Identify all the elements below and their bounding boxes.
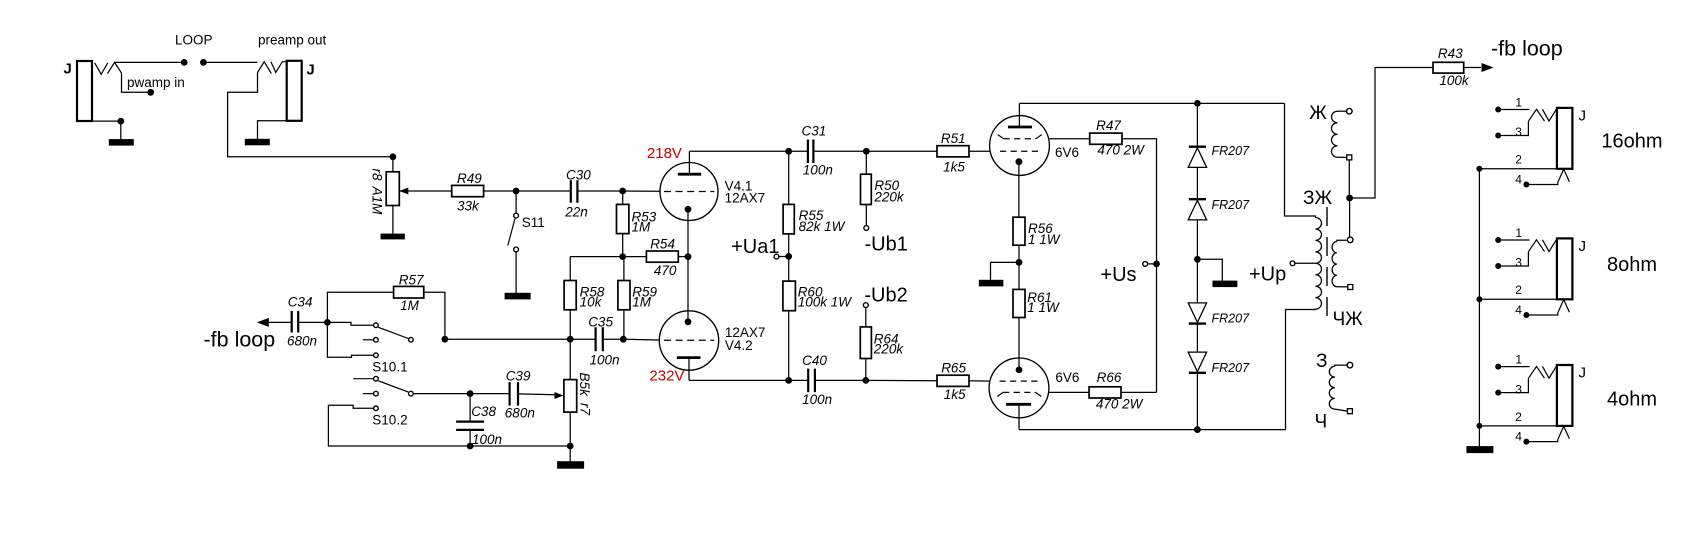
diode FR207 D1: [1188, 148, 1206, 168]
wire V4.1 anode to C31: [689, 150, 808, 152]
svg-text:6V6: 6V6: [1055, 145, 1079, 160]
svg-text:3: 3: [1515, 125, 1522, 139]
V4.1 cathode lead: [687, 209, 689, 256]
jack 8ohm tip contact: [1529, 240, 1545, 252]
wire R59 top: [623, 257, 625, 281]
svg-text:16ohm: 16ohm: [1601, 131, 1662, 153]
capacitor C31: [807, 140, 809, 164]
wire J2 sleeve: [258, 121, 287, 139]
secondary stub bottom: [1337, 286, 1348, 288]
jack 16ohm pin4 node: [1523, 182, 1529, 188]
svg-text:1k5: 1k5: [944, 387, 966, 402]
wire pwamp in stub: [122, 73, 151, 92]
jack J preamp-out body: [287, 61, 302, 121]
svg-text:2: 2: [1515, 153, 1522, 167]
wire R54 to cathode node: [678, 256, 688, 258]
resistor R60: [783, 281, 796, 311]
switch S10.1 throw3 contact: [374, 353, 379, 358]
ground of S11: [505, 293, 531, 300]
triode V4.2 envelope: [659, 311, 718, 370]
jack J2 tip break contact: [271, 62, 287, 73]
svg-text:82k 1W: 82k 1W: [799, 219, 846, 234]
svg-text:FR207: FR207: [1212, 144, 1251, 158]
wire R66 to rail: [1121, 391, 1157, 393]
resistor R56: [1013, 217, 1025, 245]
node R64 bottom: [862, 377, 869, 384]
wire pot top: [392, 157, 394, 172]
jack J1 tip contact: [107, 62, 121, 73]
wire LOOP return to J2: [203, 61, 257, 63]
wire C34 to node: [298, 321, 327, 323]
node +Ua1: [785, 253, 792, 260]
feedback winding terminal top: [1347, 108, 1353, 114]
winding З stub bottom: [1335, 409, 1348, 411]
svg-text:C31: C31: [802, 124, 827, 139]
switch S10.1 throw2 contact: [374, 338, 379, 343]
switch S10.1 throw1 contact: [374, 323, 379, 328]
capacitor C40: [807, 369, 809, 393]
node diode chain bottom: [1194, 426, 1201, 433]
resistor R57: [394, 286, 424, 298]
svg-text:r8: r8: [369, 168, 384, 180]
ground of speaker bus: [1466, 446, 1493, 453]
pentode 6V6 upper envelope: [990, 116, 1050, 176]
pot B5k wiper arrow: [555, 392, 564, 399]
6V6u anode plate: [1008, 126, 1032, 129]
capacitor C35: [594, 327, 596, 351]
switch S10.1 throw2 stub: [363, 339, 374, 341]
wire R53 bottom: [622, 234, 624, 257]
V4.2 anode plate: [677, 356, 701, 359]
terminal -Ub1: [864, 226, 869, 231]
jack 16ohm pin2 wire: [1479, 168, 1557, 170]
wire R58 bottom: [569, 310, 571, 339]
triode V4.1 envelope: [660, 163, 718, 221]
6V6l cathode node: [1016, 367, 1023, 374]
svg-text:100n: 100n: [472, 432, 502, 447]
jack J 16ohm pin1 node: [1495, 107, 1501, 113]
wire S10.2 throw3 to bottom rail: [328, 405, 470, 446]
node R50 top: [863, 148, 870, 155]
svg-text:1 1W: 1 1W: [1028, 232, 1061, 247]
switch S10.1 lever: [378, 327, 408, 338]
jack 16ohm pin4 wire: [1526, 182, 1557, 184]
wire node to S10.1 throw3: [327, 322, 373, 357]
jack 16ohm pin2 node: [1476, 166, 1482, 172]
node pwamp in: [147, 89, 154, 96]
wire feedback node to R43: [1350, 68, 1433, 199]
terminal +Us: [1143, 262, 1148, 267]
wire R51 to 6V6 grid: [969, 150, 990, 152]
wire C38 node to C39: [470, 393, 510, 395]
jack 4ohm pin4 node: [1523, 439, 1529, 445]
wire to cathode ground: [991, 262, 1020, 280]
jack 8ohm pin1 wire: [1498, 239, 1529, 241]
resistor R49: [452, 185, 484, 196]
jack 4ohm pin1 wire: [1498, 366, 1529, 368]
svg-text:R57: R57: [399, 272, 424, 287]
jack 4ohm pin2 node: [1476, 423, 1482, 429]
svg-text:C40: C40: [802, 353, 827, 368]
pot r8 wiper arrow: [399, 188, 408, 195]
transformer core: [1326, 207, 1328, 316]
feedback winding stub top: [1338, 110, 1347, 112]
wire node up to R57: [327, 292, 393, 322]
wire R50 top: [865, 151, 867, 174]
wire B5k bottom: [569, 412, 571, 446]
wire node to R58 branch: [570, 256, 646, 258]
wire C31 to R50 node: [813, 150, 866, 152]
resistor R66: [1089, 387, 1121, 398]
jack 16ohm pin3 node: [1495, 133, 1501, 139]
svg-text:preamp out: preamp out: [258, 33, 327, 48]
wire R60 bottom: [788, 311, 790, 381]
switch S10.1 pole contact: [409, 338, 414, 343]
6V6u anode lead: [1018, 103, 1020, 127]
node cathodes V4.1/V4.2: [685, 253, 692, 260]
svg-text:J: J: [306, 62, 314, 79]
transformer feedback winding: [1332, 111, 1338, 157]
ground of 6V6 cathodes: [979, 280, 1004, 287]
wire R49 to node: [484, 190, 516, 192]
svg-text:R43: R43: [1438, 46, 1463, 61]
wire anode bottom rail: [1019, 429, 1286, 431]
svg-text:4: 4: [1515, 303, 1522, 317]
wire to +Up ground: [1197, 259, 1222, 281]
wire C30 to grid node: [577, 190, 622, 192]
svg-text:C30: C30: [566, 167, 591, 182]
node diode chain top: [1194, 100, 1201, 107]
svg-text:C39: C39: [506, 368, 531, 383]
node B5k bottom: [567, 443, 574, 450]
svg-text:J: J: [1579, 107, 1587, 124]
diode FR207 D2: [1188, 200, 1206, 220]
node C38 bottom: [467, 443, 474, 450]
svg-text:1: 1: [1515, 353, 1522, 367]
wire R59 bottom: [623, 310, 625, 339]
V4.1 cathode node: [685, 206, 692, 213]
wire branch down to R58: [569, 257, 571, 281]
resistor R55: [783, 204, 794, 234]
wire node to S10.1 throw1: [327, 322, 373, 325]
6V6l screen end ticks: [997, 392, 1003, 396]
jack 4ohm pin4 wire: [1526, 440, 1557, 442]
svg-text:C38: C38: [471, 404, 496, 419]
svg-text:C35: C35: [588, 314, 613, 329]
switch S10.2 lever: [378, 381, 408, 392]
transformer secondary winding: [1332, 242, 1337, 287]
jack 8ohm pin3 wire: [1498, 252, 1528, 266]
switch S11 top contact: [514, 213, 519, 218]
wire -fb arrow to C34: [266, 321, 292, 323]
jack 8ohm pin3 node: [1495, 263, 1501, 269]
wire C40 to R64 node: [815, 379, 866, 381]
switch S10.2 throw1 contact: [374, 376, 379, 381]
jack J 4ohm pin1 node: [1495, 364, 1501, 370]
wire R55 bottom: [788, 234, 790, 281]
terminal +Ua1: [774, 254, 779, 259]
svg-text:J: J: [64, 61, 72, 78]
svg-text:R65: R65: [941, 361, 966, 376]
wire R50 bottom: [865, 205, 867, 226]
wire C38 top: [469, 394, 471, 421]
switch S11 bottom contact: [514, 247, 519, 252]
jack 16ohm sleeve contact: [1558, 169, 1570, 182]
switch S10.2 throw1 stub: [353, 378, 373, 380]
arrow -fb loop (left): [257, 318, 269, 327]
svg-text:22n: 22n: [564, 205, 588, 220]
diode FR207 D3: [1188, 303, 1206, 323]
wire node to C30: [516, 190, 571, 192]
node pot r8 top: [390, 153, 397, 160]
wire preamp-out to volume pot: [228, 73, 393, 157]
svg-text:100n: 100n: [590, 352, 620, 367]
V4.2 cathode lead: [687, 257, 689, 322]
wire wiper to R49: [399, 190, 451, 192]
wire C35 left: [570, 338, 595, 340]
svg-text:470 2W: 470 2W: [1096, 397, 1144, 412]
wire S10.2 pole to C38 node: [413, 393, 470, 395]
wire R47 to +Us rail: [1122, 139, 1157, 393]
wire R64 bottom: [865, 359, 867, 381]
svg-text:33k: 33k: [457, 198, 480, 213]
switch S10.2 throw2 stub: [363, 393, 374, 395]
svg-text:R47: R47: [1096, 118, 1121, 133]
winding З stub top: [1335, 365, 1347, 366]
svg-text:470: 470: [654, 263, 677, 278]
svg-text:220k: 220k: [873, 342, 905, 357]
resistor R53: [617, 204, 629, 233]
svg-text:4ohm: 4ohm: [1607, 389, 1657, 411]
svg-text:ЗЖ: ЗЖ: [1303, 188, 1332, 209]
ground of tone network: [557, 461, 584, 469]
transformer primary winding: [1316, 218, 1322, 310]
svg-text:100n: 100n: [802, 392, 832, 407]
svg-text:4: 4: [1515, 430, 1522, 444]
node R55 top: [785, 148, 792, 155]
node feedback select: [324, 319, 331, 326]
svg-text:1: 1: [1515, 226, 1522, 240]
jack J2 tip contact: [258, 62, 272, 74]
jack 8ohm pin2 wire: [1479, 298, 1557, 300]
svg-text:220k: 220k: [873, 189, 905, 204]
transformer winding З/Ч: [1329, 366, 1335, 409]
jack 4ohm tip break contact: [1543, 366, 1557, 378]
jack 4ohm tip contact: [1529, 366, 1545, 378]
jack 4ohm pin3 node: [1495, 390, 1501, 396]
jack 16ohm tip break contact: [1543, 109, 1557, 121]
resistor R58: [564, 281, 576, 310]
jack J pwamp-in body: [77, 61, 92, 121]
wire node to R65: [866, 379, 937, 381]
resistor R59: [618, 281, 630, 310]
svg-text:680n: 680n: [287, 334, 317, 349]
svg-text:-fb loop: -fb loop: [204, 328, 276, 352]
svg-text:232V: 232V: [649, 368, 684, 385]
svg-text:Ч: Ч: [1315, 412, 1328, 433]
wire S11 to ground: [515, 252, 517, 293]
6V6l screen grid (dashed): [1003, 391, 1036, 393]
svg-text:+Up: +Up: [1249, 264, 1286, 286]
svg-text:2: 2: [1515, 283, 1522, 297]
svg-text:680n: 680n: [505, 405, 535, 420]
6V6l control grid (dashed): [1000, 380, 1040, 382]
svg-text:S11: S11: [522, 215, 545, 230]
svg-text:2: 2: [1515, 410, 1522, 424]
V4.2 grid (dashed): [664, 339, 714, 341]
6V6l screen lead: [1049, 391, 1089, 393]
wire top rail to primary top: [1285, 103, 1316, 218]
jack 4ohm pin3 wire: [1498, 378, 1528, 392]
6V6u control grid (dashed): [1000, 150, 1040, 152]
wire node to R51: [866, 150, 937, 152]
wire C35 right: [603, 338, 624, 340]
wire speaker common bus: [1478, 169, 1480, 446]
wire V4.2 anode rail: [689, 379, 808, 381]
wire -Ub2 to R64: [865, 308, 867, 327]
node cathode bias: [1016, 259, 1023, 266]
jack J 4ohm body: [1557, 365, 1573, 426]
node R58/B5k/grid line: [567, 336, 574, 343]
wire anode top rail: [1019, 102, 1284, 104]
wire C39 to B5k wiper: [518, 393, 556, 396]
resistor R51: [937, 146, 969, 157]
capacitor C30: [570, 180, 572, 203]
wire grid V4.1: [623, 190, 661, 192]
6V6u screen grid (dashed): [1004, 138, 1037, 140]
potentiometer r8 A1M body: [386, 172, 399, 206]
wire pot bottom: [392, 206, 394, 234]
jack 16ohm pin3 wire: [1498, 121, 1528, 135]
ground of supply mid: [1212, 281, 1237, 288]
svg-text:100k: 100k: [1439, 73, 1470, 88]
switch S10.2 throw3 contact: [374, 406, 379, 411]
svg-text:R51: R51: [941, 131, 966, 146]
wire B5k top: [569, 339, 571, 379]
jack J 16ohm body: [1557, 108, 1573, 169]
svg-text:1M: 1M: [400, 298, 420, 313]
node C38 top: [467, 390, 474, 397]
svg-text:V4.2: V4.2: [725, 338, 753, 353]
svg-text:1k5: 1k5: [943, 159, 965, 174]
svg-text:3: 3: [1515, 256, 1522, 270]
resistor R50: [861, 174, 872, 204]
svg-text:J: J: [1579, 238, 1587, 255]
V4.1 grid (dashed): [664, 191, 714, 193]
wire grid V4.2: [623, 338, 659, 341]
resistor R47: [1090, 133, 1122, 144]
svg-text:+Ua1: +Ua1: [731, 236, 779, 258]
wire R57 right down to S10.1 out: [424, 292, 445, 339]
svg-text:ЧЖ: ЧЖ: [1333, 309, 1364, 330]
potentiometer B5k body: [564, 380, 577, 413]
resistor R43: [1433, 62, 1464, 73]
6V6u screen lead: [1049, 138, 1089, 140]
wire J1 sleeve: [92, 121, 121, 139]
svg-text:1: 1: [1515, 96, 1522, 110]
svg-text:R54: R54: [650, 237, 675, 252]
wire +Up to primary tap: [1295, 262, 1316, 264]
svg-text:+Us: +Us: [1100, 264, 1136, 286]
svg-text:LOOP: LOOP: [175, 33, 213, 48]
wire R61 bottom: [1018, 318, 1020, 370]
node R59/grid V4.2: [620, 336, 627, 343]
svg-text:J: J: [1579, 364, 1587, 381]
svg-text:R66: R66: [1097, 370, 1122, 385]
svg-text:-Ub2: -Ub2: [864, 285, 907, 307]
node S10.1 output: [442, 336, 449, 343]
V4.1 anode lead: [688, 151, 690, 174]
wire S10.1 out to R58 node: [445, 338, 570, 340]
node J1 sleeve: [117, 118, 124, 125]
wire +Us terminal: [1148, 263, 1157, 265]
winding З/Ч terminal bottom: [1347, 409, 1352, 414]
svg-text:pwamp in: pwamp in: [127, 75, 185, 90]
jack 16ohm pin1 wire: [1498, 109, 1529, 111]
node R53 top / grid V4.1: [619, 188, 626, 195]
resistor R65: [937, 375, 969, 386]
ground of pot r8: [381, 234, 405, 240]
wire to main ground: [569, 446, 571, 462]
svg-text:1M: 1M: [632, 220, 652, 235]
resistor R61: [1013, 289, 1025, 317]
node LOOP return: [200, 59, 207, 66]
secondary winding terminal top: [1347, 237, 1353, 243]
svg-text:3: 3: [1515, 382, 1522, 396]
svg-text:1 1W: 1 1W: [1027, 300, 1060, 315]
6V6l anode plate: [1006, 403, 1031, 406]
terminal -Ub2: [863, 303, 868, 308]
wire R55 top: [788, 151, 790, 204]
wire feedback to node: [1348, 160, 1350, 198]
wire tip to LOOP send: [115, 61, 185, 63]
arrow -fb loop (top): [1482, 63, 1494, 72]
svg-text:З: З: [1316, 351, 1327, 372]
svg-text:-Ub1: -Ub1: [865, 234, 908, 256]
jack 4ohm pin2 wire: [1479, 425, 1557, 427]
pentode 6V6 lower envelope: [989, 358, 1049, 418]
feedback winding stub bottom: [1338, 156, 1347, 158]
svg-text:100n: 100n: [803, 163, 833, 178]
svg-text:A1M: A1M: [369, 186, 384, 216]
6V6u screen end ticks: [998, 135, 1004, 139]
svg-text:FR207: FR207: [1212, 198, 1251, 212]
svg-text:470 2W: 470 2W: [1097, 143, 1145, 158]
resistor R54: [646, 251, 678, 262]
svg-text:8ohm: 8ohm: [1607, 254, 1657, 276]
svg-text:S10.2: S10.2: [372, 413, 407, 428]
svg-text:FR207: FR207: [1212, 312, 1251, 326]
node +Us: [1153, 261, 1160, 268]
svg-text:R49: R49: [457, 171, 482, 186]
wire C38 bottom: [469, 431, 471, 446]
6V6l anode lead: [1018, 404, 1020, 429]
capacitor C38: [456, 421, 484, 423]
V4.1 anode plate: [678, 173, 701, 176]
secondary stub top: [1337, 240, 1348, 241]
feedback winding terminal bottom: [1347, 155, 1352, 160]
node R53/R54/R58: [619, 253, 626, 260]
6V6u cathode node: [1016, 158, 1023, 165]
wire R43 to -fb loop arrow: [1464, 67, 1481, 69]
jack J 8ohm pin1 node: [1495, 237, 1501, 243]
V4.2 cathode node: [685, 318, 692, 325]
switch S10.2 pole contact: [409, 391, 414, 396]
svg-text:1M: 1M: [632, 295, 652, 310]
terminal +Up: [1290, 261, 1295, 266]
jack 4ohm sleeve contact: [1558, 426, 1570, 439]
svg-text:B5k: B5k: [577, 373, 592, 398]
